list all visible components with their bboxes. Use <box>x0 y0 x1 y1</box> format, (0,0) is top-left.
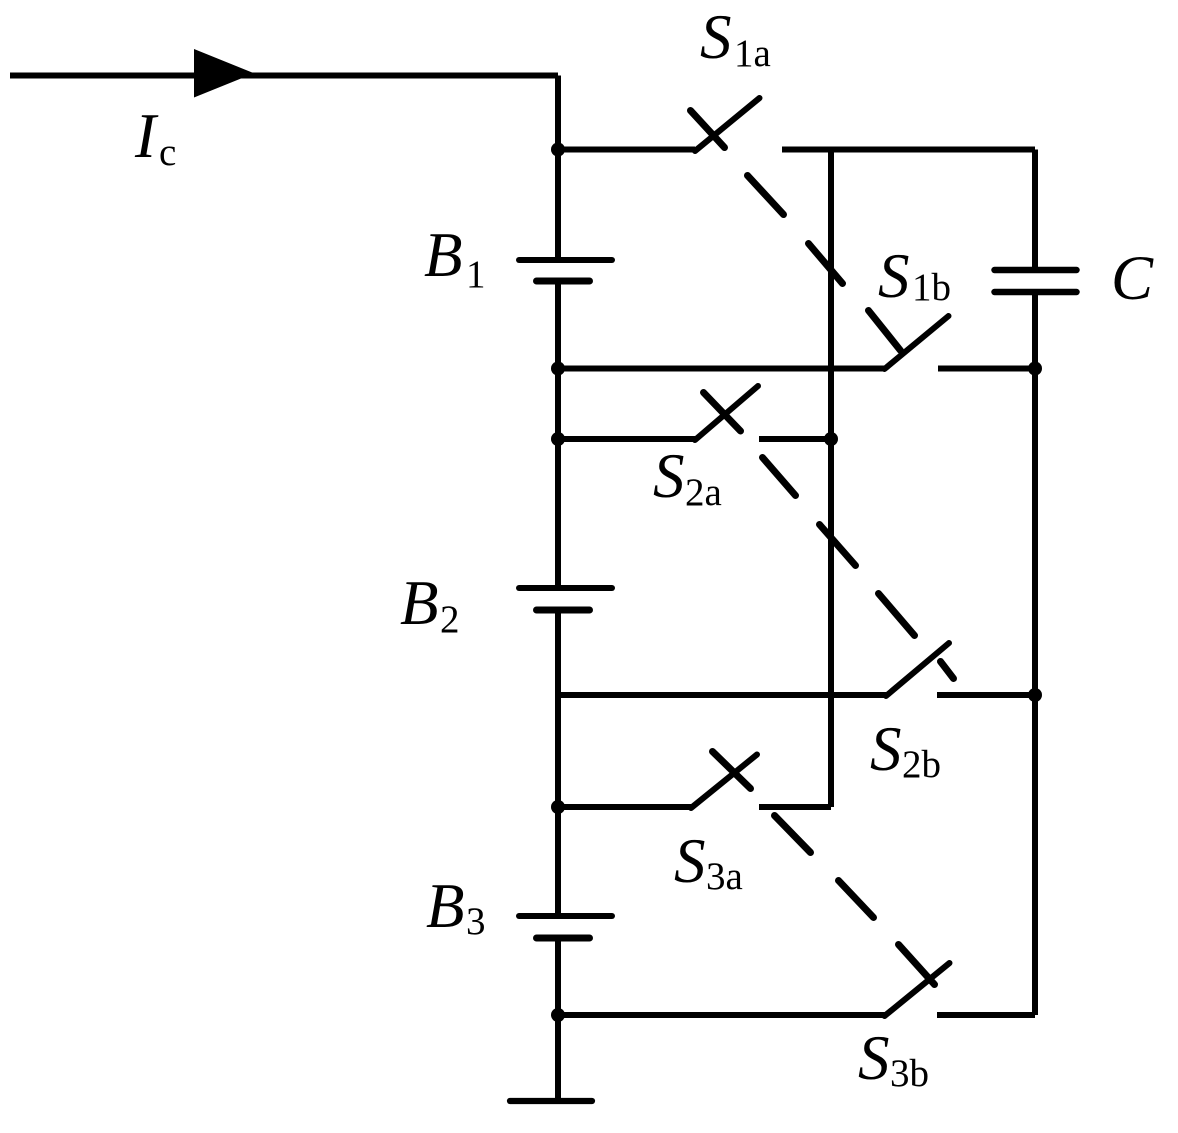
svg-text:S: S <box>700 2 732 72</box>
svg-text:3a: 3a <box>706 855 743 898</box>
wire middle rail <box>828 150 834 808</box>
node junction left wire5 <box>551 800 565 814</box>
svg-text:S: S <box>653 441 685 511</box>
svg-text:1: 1 <box>466 253 486 296</box>
wire 2 right segment <box>938 366 1035 372</box>
wire 3 left segment <box>558 436 696 442</box>
coupling dashed link S2a-S2b <box>704 393 954 679</box>
label S1b <box>878 241 951 311</box>
node junction right wire4 <box>1028 688 1042 702</box>
switch S3b <box>885 963 950 1016</box>
label S2b <box>870 714 941 786</box>
wire left rail B1-B2 <box>555 284 561 585</box>
svg-text:1a: 1a <box>734 32 771 75</box>
label S2a <box>653 441 722 514</box>
wire 5 right segment <box>759 804 831 810</box>
wire left rail top <box>555 76 561 258</box>
wire 1 left segment <box>558 147 695 153</box>
capacitor C <box>995 270 1077 292</box>
node junction left wire3 <box>551 432 565 446</box>
label I_c <box>134 101 176 174</box>
svg-text:3b: 3b <box>890 1052 929 1095</box>
label B2 <box>400 568 460 641</box>
ground <box>510 1098 592 1104</box>
svg-text:S: S <box>878 241 910 311</box>
switch S2b <box>886 643 949 696</box>
battery B2 <box>519 588 612 610</box>
svg-text:I: I <box>134 101 159 171</box>
switch S1b <box>885 316 949 369</box>
coupling dashed link S3a-S3b <box>713 752 935 985</box>
wire left rail B2-B3 <box>555 613 561 913</box>
wire right rail lower <box>1032 295 1038 1015</box>
switch S1a <box>695 98 760 151</box>
wire 4 left segment <box>558 692 886 698</box>
battery B3 <box>519 916 612 938</box>
svg-text:C: C <box>1111 243 1154 313</box>
label B3 <box>426 871 486 943</box>
svg-text:2a: 2a <box>685 471 722 514</box>
label S1a <box>700 2 771 75</box>
svg-text:B: B <box>424 220 462 290</box>
svg-text:3: 3 <box>466 900 486 943</box>
svg-text:c: c <box>159 131 176 174</box>
wire input current feed <box>10 73 558 79</box>
svg-text:S: S <box>674 826 706 896</box>
svg-text:S: S <box>858 1023 890 1093</box>
svg-text:S: S <box>870 714 902 784</box>
svg-text:2: 2 <box>440 598 460 641</box>
svg-text:B: B <box>400 568 438 638</box>
wire left rail B3-ground <box>555 941 561 1098</box>
wire 3 right segment <box>759 436 831 442</box>
label S3b <box>858 1023 929 1095</box>
svg-text:1b: 1b <box>912 266 951 309</box>
wire right rail upper <box>1032 150 1038 268</box>
label C <box>1111 243 1154 313</box>
svg-text:2b: 2b <box>902 743 941 786</box>
node junction left wire6 <box>551 1008 565 1022</box>
node junction left wire2 <box>551 362 565 376</box>
label S3a <box>674 826 743 898</box>
wire 6 right segment <box>937 1012 1035 1018</box>
node junction middle wire3 <box>824 432 838 446</box>
wire 5 left segment <box>558 804 692 810</box>
svg-text:B: B <box>426 871 464 941</box>
switch S2a <box>695 386 758 440</box>
wire 1 right segment <box>782 147 1035 153</box>
node junction right wire2 <box>1028 362 1042 376</box>
node junction top-left <box>551 143 565 157</box>
wire 2 left segment <box>558 366 885 372</box>
arrow current direction <box>194 49 254 98</box>
switch S3a <box>691 755 757 809</box>
wire 6 left segment <box>558 1012 885 1018</box>
battery B1 <box>519 260 612 281</box>
wire 4 right segment <box>937 692 1035 698</box>
label B1 <box>424 220 486 296</box>
coupling dashed link S1a-S1b <box>691 111 901 351</box>
